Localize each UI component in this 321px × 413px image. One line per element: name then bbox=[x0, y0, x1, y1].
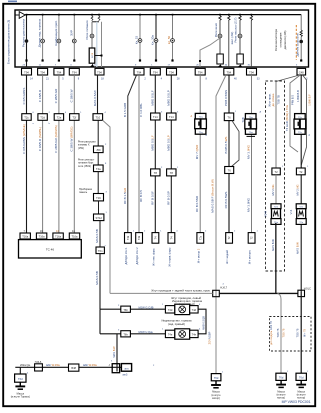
svg-text:T4 GAD (BLW) 2 TOa: T4 GAD (BLW) 2 TOa bbox=[285, 104, 289, 131]
svg-text:(J59): (J59) bbox=[78, 147, 84, 150]
label wire 281b bbox=[283, 328, 286, 337]
module caption rotated bbox=[270, 321, 273, 345]
svg-text:S228: S228 bbox=[92, 52, 94, 58]
gateway box TC46 bbox=[19, 240, 82, 258]
svg-text:T.0B: T.0B bbox=[241, 117, 245, 122]
dashed module box right bbox=[266, 81, 285, 271]
wire label bottom 1 bbox=[46, 363, 60, 367]
svg-text:T4d: T4d bbox=[168, 308, 173, 312]
label wire 301c bbox=[303, 329, 306, 337]
svg-text:T16a: T16a bbox=[39, 235, 45, 239]
fuse t12 bbox=[250, 15, 253, 21]
lamp M9 left connector bbox=[165, 306, 174, 313]
wire m5f bbox=[99, 221, 101, 247]
svg-text:Комбинация приб.: Комбинация приб. bbox=[54, 20, 58, 46]
connector T94/8 pin 28 bbox=[167, 68, 177, 75]
terminal vbox m14 bbox=[248, 233, 255, 244]
text stack panel bbox=[79, 188, 93, 194]
svg-text:Реле вентилятора: Реле вентилятора bbox=[274, 28, 278, 50]
wire m5d bbox=[97, 172, 99, 194]
label m9b bbox=[150, 135, 154, 151]
connector box m13a bbox=[224, 113, 233, 121]
svg-text:T14: T14 bbox=[169, 115, 174, 119]
label pump E bbox=[289, 209, 293, 214]
svg-text:T2: T2 bbox=[275, 170, 279, 174]
svg-text:T6d: T6d bbox=[18, 377, 23, 381]
svg-text:T6n: T6n bbox=[98, 249, 103, 253]
svg-text:RF B 0.5NR: RF B 0.5NR bbox=[195, 195, 199, 212]
wire t2 bbox=[41, 15, 45, 60]
label t5 bbox=[85, 20, 89, 39]
label zov bbox=[207, 331, 211, 344]
connector T94/5 pin 18 bbox=[95, 68, 104, 75]
label m10c bbox=[166, 191, 170, 205]
label m2a bbox=[38, 89, 42, 102]
svg-text:T4e: T4e bbox=[168, 333, 173, 337]
svg-text:MV 3.9NG: MV 3.9NG bbox=[246, 144, 250, 159]
wire t4 bbox=[72, 15, 76, 60]
junction HJ/LC bbox=[298, 290, 305, 296]
svg-text:T14: T14 bbox=[153, 115, 158, 119]
terminal vbox m8 bbox=[136, 233, 143, 244]
svg-text:RF B 0.5: RF B 0.5 bbox=[139, 190, 143, 202]
svg-text:MAS 0.5A/F: MAS 0.5A/F bbox=[93, 90, 97, 106]
vertical to bottom line bbox=[116, 334, 118, 372]
svg-text:T6: T6 bbox=[227, 115, 231, 119]
ground terminal box left bbox=[15, 374, 26, 382]
pump V actuator C bbox=[271, 204, 281, 225]
label m14a bbox=[246, 144, 250, 159]
svg-text:lablr W.3f0a: lablr W.3f0a bbox=[83, 363, 97, 367]
label t13 bbox=[296, 33, 300, 56]
label D1 bbox=[285, 104, 289, 131]
harness text B bbox=[171, 296, 201, 300]
fuse pair t5 bbox=[91, 15, 100, 22]
wire C to corner bbox=[275, 223, 277, 293]
svg-text:сети (J519): сети (J519) bbox=[78, 165, 91, 168]
ground caption 281 bbox=[276, 390, 286, 399]
terminal vbox m11 bbox=[197, 233, 204, 244]
wire m5c bbox=[97, 153, 99, 165]
svg-text:ZOVNGBP: ZOVNGBP bbox=[207, 331, 211, 344]
connector box m10a bbox=[167, 113, 176, 120]
wire E right column bbox=[300, 75, 302, 292]
label E4 bbox=[295, 184, 299, 195]
wire t11 bbox=[238, 21, 242, 54]
lamp M10 right connector bbox=[190, 330, 198, 337]
ground symbol m12 bbox=[211, 381, 221, 388]
wire m9 bbox=[154, 75, 156, 233]
svg-text:(в жгуте Тормоз): (в жгуте Тормоз) bbox=[11, 396, 30, 399]
connector T94/1 pin 14 bbox=[22, 68, 32, 75]
wire m4 bbox=[73, 75, 75, 233]
svg-text:RF B 0.5WS: RF B 0.5WS bbox=[224, 192, 228, 209]
lamp row1 caption bbox=[172, 299, 203, 306]
svg-text:MV 2.NG: MV 2.NG bbox=[295, 184, 299, 195]
svg-text:MAB 0.5QB: MAB 0.5QB bbox=[201, 316, 205, 330]
svg-text:Разъем диагностики: Разъем диагностики bbox=[22, 19, 26, 48]
lamp M10 left connector bbox=[165, 330, 174, 337]
label m2b bbox=[38, 127, 42, 151]
junction HJ/L5 bbox=[35, 364, 43, 371]
resistor R t9 bbox=[217, 54, 223, 67]
svg-text:MBG 0.5LF: MBG 0.5LF bbox=[150, 90, 154, 106]
resistor R t11 bbox=[237, 54, 243, 67]
ECM control unit box J623 bbox=[15, 10, 309, 67]
svg-text:B 1.5 GRB: B 1.5 GRB bbox=[123, 103, 127, 117]
wire link right lamps bbox=[198, 309, 206, 334]
label m5g bbox=[95, 271, 99, 285]
connector box m3 bbox=[54, 114, 63, 121]
svg-text:T16a: T16a bbox=[22, 235, 28, 239]
connector T16a/2 pin 16 bbox=[36, 233, 46, 239]
svg-text:T94: T94 bbox=[137, 70, 142, 74]
svg-text:202a Qa.: 202a Qa. bbox=[20, 363, 31, 367]
svg-text:охлаждения: охлаждения bbox=[280, 32, 283, 47]
tiny pin digits bottom components bbox=[27, 284, 309, 375]
svg-text:T4e: T4e bbox=[192, 333, 197, 337]
svg-text:TOB 7B: TOB 7B bbox=[283, 328, 286, 337]
orange dashed wire bbox=[295, 25, 297, 60]
connector C48 pin 3 bbox=[297, 68, 306, 75]
svg-text:T2f: T2f bbox=[72, 116, 76, 120]
wire m5 bbox=[97, 75, 99, 114]
wire m12 long ground wire bbox=[216, 75, 226, 374]
svg-text:доп. модуль CAN 7B: доп. модуль CAN 7B bbox=[270, 321, 273, 345]
label pump C bbox=[264, 210, 268, 217]
svg-text:T94: T94 bbox=[169, 70, 174, 74]
label valve E pin bbox=[309, 134, 311, 137]
sheet code bbox=[282, 400, 311, 404]
connector T94/6 pin 2 bbox=[134, 68, 144, 75]
svg-text:PIW B.S: PIW B.S bbox=[291, 95, 295, 105]
wire t5 blue bbox=[96, 22, 98, 67]
svg-text:C 3B/5.W: C 3B/5.W bbox=[70, 89, 74, 102]
label t9 bbox=[214, 23, 218, 38]
connector T94/2 pin 21 bbox=[38, 68, 48, 75]
label m7a bbox=[123, 103, 127, 117]
wire m1 bbox=[26, 75, 28, 233]
svg-text:T4d: T4d bbox=[192, 308, 197, 312]
terminal vbox m7 bbox=[125, 233, 132, 244]
lamp M9 right connector bbox=[190, 306, 198, 313]
svg-text:T94: T94 bbox=[40, 70, 45, 74]
label HJ/L7 bbox=[220, 286, 227, 290]
svg-text:am: am bbox=[125, 366, 130, 370]
label t6 bbox=[135, 35, 139, 44]
wire t6 bbox=[138, 15, 142, 60]
wire m13 branch diagonal bbox=[232, 121, 240, 167]
svg-text:T6h: T6h bbox=[123, 308, 128, 312]
label m5a bbox=[93, 90, 97, 106]
ground symbol left bbox=[15, 382, 25, 389]
wire m8 bbox=[138, 75, 140, 233]
relay box m5b bbox=[94, 146, 104, 153]
label m11a bbox=[195, 144, 199, 159]
svg-text:T4a: T4a bbox=[96, 167, 101, 171]
label m13a bbox=[224, 90, 228, 106]
wire t1 bbox=[25, 15, 29, 67]
inline box row2 bbox=[121, 331, 131, 337]
label m9c bbox=[150, 191, 154, 205]
fuse box S t5 bbox=[89, 48, 95, 63]
svg-text:MAS B.W: MAS B.W bbox=[296, 242, 300, 254]
connector box m9a bbox=[151, 113, 160, 120]
junction HJ/L7 bbox=[213, 290, 220, 296]
TC46 pin numbers bbox=[24, 230, 76, 233]
label m1a bbox=[22, 88, 26, 105]
svg-text:RF B 0.5F: RF B 0.5F bbox=[150, 191, 154, 205]
wire label row2 bbox=[139, 330, 154, 334]
label m13b bbox=[224, 137, 228, 154]
svg-text:Блок управления двигателя (J): Блок управления двигателя (J) bbox=[7, 20, 11, 64]
right fan wires from C48 bbox=[276, 75, 307, 165]
label C4 bbox=[271, 184, 275, 195]
svg-text:T94: T94 bbox=[57, 70, 62, 74]
svg-text:MV 3.9NG: MV 3.9NG bbox=[246, 197, 250, 212]
svg-text:T6: T6 bbox=[228, 169, 232, 173]
svg-text:T6h: T6h bbox=[123, 332, 128, 336]
label m11b bbox=[195, 195, 199, 212]
svg-text:T8: T8 bbox=[154, 171, 158, 175]
connector T94/7 pin 4 bbox=[150, 68, 160, 75]
label pump relay 2 bbox=[230, 32, 234, 45]
svg-text:MAS 0.5B: MAS 0.5B bbox=[95, 229, 99, 243]
ground terminal 301 bbox=[296, 373, 306, 380]
fuse t11 bbox=[239, 15, 242, 21]
svg-text:T2w: T2w bbox=[249, 132, 254, 134]
svg-text:Ж-т 7B: Ж-т 7B bbox=[303, 329, 306, 337]
svg-text:C 3B/5.W (BR/GE): C 3B/5.W (BR/GE) bbox=[70, 126, 74, 151]
tiny pin digits above connector row bbox=[23, 65, 299, 67]
svg-text:RF B 0.5P: RF B 0.5P bbox=[166, 191, 170, 205]
label m1b bbox=[22, 124, 26, 154]
wire m7 diagonal from connector bbox=[128, 75, 137, 233]
lamp M10 body bbox=[175, 329, 190, 339]
label A32 bbox=[123, 373, 128, 376]
svg-text:T6d: T6d bbox=[279, 376, 284, 380]
terminal vbox m9 bbox=[152, 233, 159, 244]
svg-text:MJW U.QaL: MJW U.QaL bbox=[139, 330, 154, 334]
label m3b bbox=[54, 125, 58, 153]
svg-text:ДИОДН. К-Н 2: ДИОДН. К-Н 2 bbox=[135, 247, 139, 265]
label m8a bbox=[139, 103, 143, 117]
svg-text:T8: T8 bbox=[170, 171, 174, 175]
wire t7 bbox=[154, 15, 158, 60]
label m10a bbox=[166, 90, 170, 106]
label t8 bbox=[167, 35, 171, 44]
label C5 bbox=[271, 239, 275, 251]
svg-text:V144: V144 bbox=[264, 210, 268, 217]
svg-text:MBG 0.5LP: MBG 0.5LP bbox=[166, 90, 170, 106]
label N18 side bbox=[241, 117, 245, 122]
svg-text:MAS 0.5B: MAS 0.5B bbox=[95, 271, 99, 285]
label m4a bbox=[70, 89, 74, 102]
wire m5-m6 diagonal bbox=[103, 120, 110, 293]
svg-text:T94: T94 bbox=[153, 70, 158, 74]
connector box m2 bbox=[38, 114, 47, 121]
internal bus wire bbox=[15, 14, 301, 16]
svg-text:RF B 1.5GR: RF B 1.5GR bbox=[123, 187, 127, 204]
label m4b bbox=[70, 126, 74, 151]
label HJ/L5 bbox=[35, 361, 42, 364]
svg-text:B48: B48 bbox=[71, 366, 76, 370]
svg-text:C 0/5.GRNS (WS/GE): C 0/5.GRNS (WS/GE) bbox=[22, 124, 26, 154]
svg-text:T94: T94 bbox=[226, 70, 231, 74]
svg-text:Ж-т лев. фары: Ж-т лев. фары bbox=[152, 248, 156, 266]
connector box m1 bbox=[22, 114, 31, 121]
label C3 bbox=[277, 95, 281, 105]
svg-text:T2d: T2d bbox=[40, 116, 45, 120]
svg-text:HJ/L7: HJ/L7 bbox=[220, 286, 227, 290]
ground wire m12 terminal bbox=[211, 374, 221, 381]
label E1 bbox=[291, 95, 295, 105]
svg-text:Ж-т мотор 2: Ж-т мотор 2 bbox=[196, 248, 200, 263]
terminal vbox m13 bbox=[226, 233, 233, 244]
svg-text:T94: T94 bbox=[249, 70, 254, 74]
bottom ground bus wire bbox=[15, 366, 125, 368]
svg-text:MV 2.NG: MV 2.NG bbox=[271, 184, 275, 195]
label link right bbox=[201, 316, 205, 330]
label E5 bbox=[296, 242, 300, 254]
svg-text:(зад. правый): (зад. правый) bbox=[168, 322, 185, 326]
wire t10 bbox=[228, 21, 230, 67]
label m5f bbox=[95, 229, 99, 243]
svg-text:Жгут проводов + задней части к: Жгут проводов + задней части кузова, про… bbox=[151, 288, 210, 292]
tiny pin digits near inline boxes bbox=[33, 111, 310, 248]
pin label N75 bbox=[191, 115, 208, 137]
terminal vbox m10 bbox=[168, 233, 175, 244]
svg-text:T16: T16 bbox=[96, 196, 101, 200]
branch to lower right gray bbox=[278, 293, 282, 373]
svg-text:HJ/L5: HJ/L5 bbox=[35, 361, 42, 364]
svg-text:MAS B.W: MAS B.W bbox=[271, 239, 275, 251]
vbox labels below bbox=[124, 247, 128, 265]
svg-text:C 0/5.GRNS: C 0/5.GRNS bbox=[22, 88, 26, 105]
connector box m13b bbox=[225, 167, 234, 174]
label wire 281 bbox=[277, 328, 280, 337]
triangle bus driver symbol bbox=[19, 12, 25, 19]
wire t3 bbox=[57, 15, 61, 60]
wire m10 bbox=[170, 75, 172, 233]
svg-text:C 2B/5.GR (GR/WS): C 2B/5.GR (GR/WS) bbox=[54, 125, 58, 153]
tap wire t5 bbox=[95, 55, 103, 57]
valve N18 bbox=[245, 114, 257, 137]
page header mark bbox=[8, 1, 17, 3]
svg-text:мотор): мотор) bbox=[212, 397, 220, 400]
connector box m10b bbox=[167, 169, 176, 176]
wire m11 bbox=[199, 75, 201, 233]
vertical link rows bbox=[99, 309, 101, 334]
connector T94/11 pin 33 bbox=[247, 68, 257, 75]
svg-text:вент. (J32): вент. (J32) bbox=[230, 32, 234, 45]
wire C in module bbox=[275, 82, 277, 169]
pump V actuator E bbox=[296, 204, 306, 225]
ground caption 301 bbox=[297, 390, 307, 399]
relay chain wire m5 bbox=[97, 120, 99, 146]
label t4 bbox=[69, 30, 73, 36]
connector T94/3 pin 5 bbox=[54, 68, 64, 75]
fuse t9 bbox=[219, 15, 222, 21]
label wire 301b bbox=[297, 328, 300, 337]
ground symbol 281 bbox=[276, 380, 286, 387]
inline box C bbox=[272, 168, 280, 175]
svg-text:T6d: T6d bbox=[214, 376, 219, 380]
label t7 bbox=[151, 35, 155, 46]
valve N75 bbox=[195, 113, 207, 134]
wire m2 bbox=[42, 75, 44, 233]
label HJ/LC bbox=[304, 286, 311, 290]
svg-text:MJW G.QJB: MJW G.QJB bbox=[139, 305, 154, 309]
svg-text:T2c: T2c bbox=[24, 116, 29, 120]
wire elbow t9a bbox=[200, 38, 220, 67]
label t2 bbox=[38, 18, 42, 47]
svg-text:MP VW03 PDC001: MP VW03 PDC001 bbox=[282, 400, 311, 404]
wire E lower to ground bbox=[300, 292, 302, 373]
label m12 bbox=[211, 179, 215, 213]
svg-text:Ж-т прав. фары: Ж-т прав. фары bbox=[168, 247, 172, 266]
svg-text:T94: T94 bbox=[72, 70, 77, 74]
label m3a bbox=[54, 88, 58, 103]
label E3 bbox=[308, 94, 312, 106]
connector T16a/4 pin 41 bbox=[69, 233, 79, 239]
svg-text:TOB 7B: TOB 7B bbox=[277, 95, 281, 105]
svg-text:J59: J59 bbox=[96, 148, 101, 152]
svg-text:am5: am5 bbox=[123, 373, 128, 376]
bus tap dots bbox=[26, 14, 253, 16]
connector box m5d bbox=[94, 194, 104, 201]
wire t9 bbox=[218, 21, 222, 54]
label m10b bbox=[166, 135, 170, 151]
svg-text:T16a: T16a bbox=[55, 235, 61, 239]
svg-text:1 BW B.F: 1 BW B.F bbox=[308, 94, 312, 106]
svg-text:Ж-т задний: Ж-т задний bbox=[225, 250, 229, 264]
label t11 bbox=[234, 17, 238, 42]
label C1 bbox=[268, 93, 272, 107]
svg-text:Реле питания: Реле питания bbox=[85, 20, 89, 39]
wire C lower bbox=[275, 175, 277, 204]
label t1 bbox=[22, 19, 26, 48]
wire m5e bbox=[98, 201, 100, 214]
label m9a bbox=[150, 90, 154, 106]
svg-text:панель: панель bbox=[79, 191, 88, 194]
ground caption left bbox=[11, 392, 30, 398]
svg-text:T94: T94 bbox=[198, 70, 203, 74]
label m13c bbox=[224, 192, 228, 209]
svg-text:MBG 0.5LF: MBG 0.5LF bbox=[150, 135, 154, 151]
svg-text:T94: T94 bbox=[24, 70, 29, 74]
svg-text:B RB 0.5WS: B RB 0.5WS bbox=[224, 137, 228, 154]
label E2 bbox=[296, 90, 300, 102]
svg-text:ЭУР: ЭУР bbox=[69, 30, 73, 36]
svg-text:Кл. 50: Кл. 50 bbox=[167, 35, 171, 44]
label 202a bbox=[20, 363, 31, 367]
svg-text:Реле насоса (J17): Реле насоса (J17) bbox=[234, 17, 238, 42]
connector T16a/3 pin 44 bbox=[53, 233, 63, 239]
svg-text:Ж-т моторн.: Ж-т моторн. bbox=[248, 249, 252, 264]
svg-text:TC 46: TC 46 bbox=[46, 248, 55, 252]
pin squares bbox=[25, 59, 302, 62]
svg-text:T6d: T6d bbox=[299, 376, 304, 380]
harness wire black horizontal bbox=[219, 223, 298, 293]
label C2 bbox=[272, 93, 275, 106]
connector T16a/1 pin 7 bbox=[20, 233, 30, 239]
svg-text:Реле вент.: Реле вент. bbox=[214, 23, 218, 38]
dashed module box bottom bbox=[270, 317, 312, 352]
svg-text:C48: C48 bbox=[299, 70, 304, 74]
relay box m5c bbox=[94, 165, 104, 172]
svg-text:T2e: T2e bbox=[57, 116, 62, 120]
